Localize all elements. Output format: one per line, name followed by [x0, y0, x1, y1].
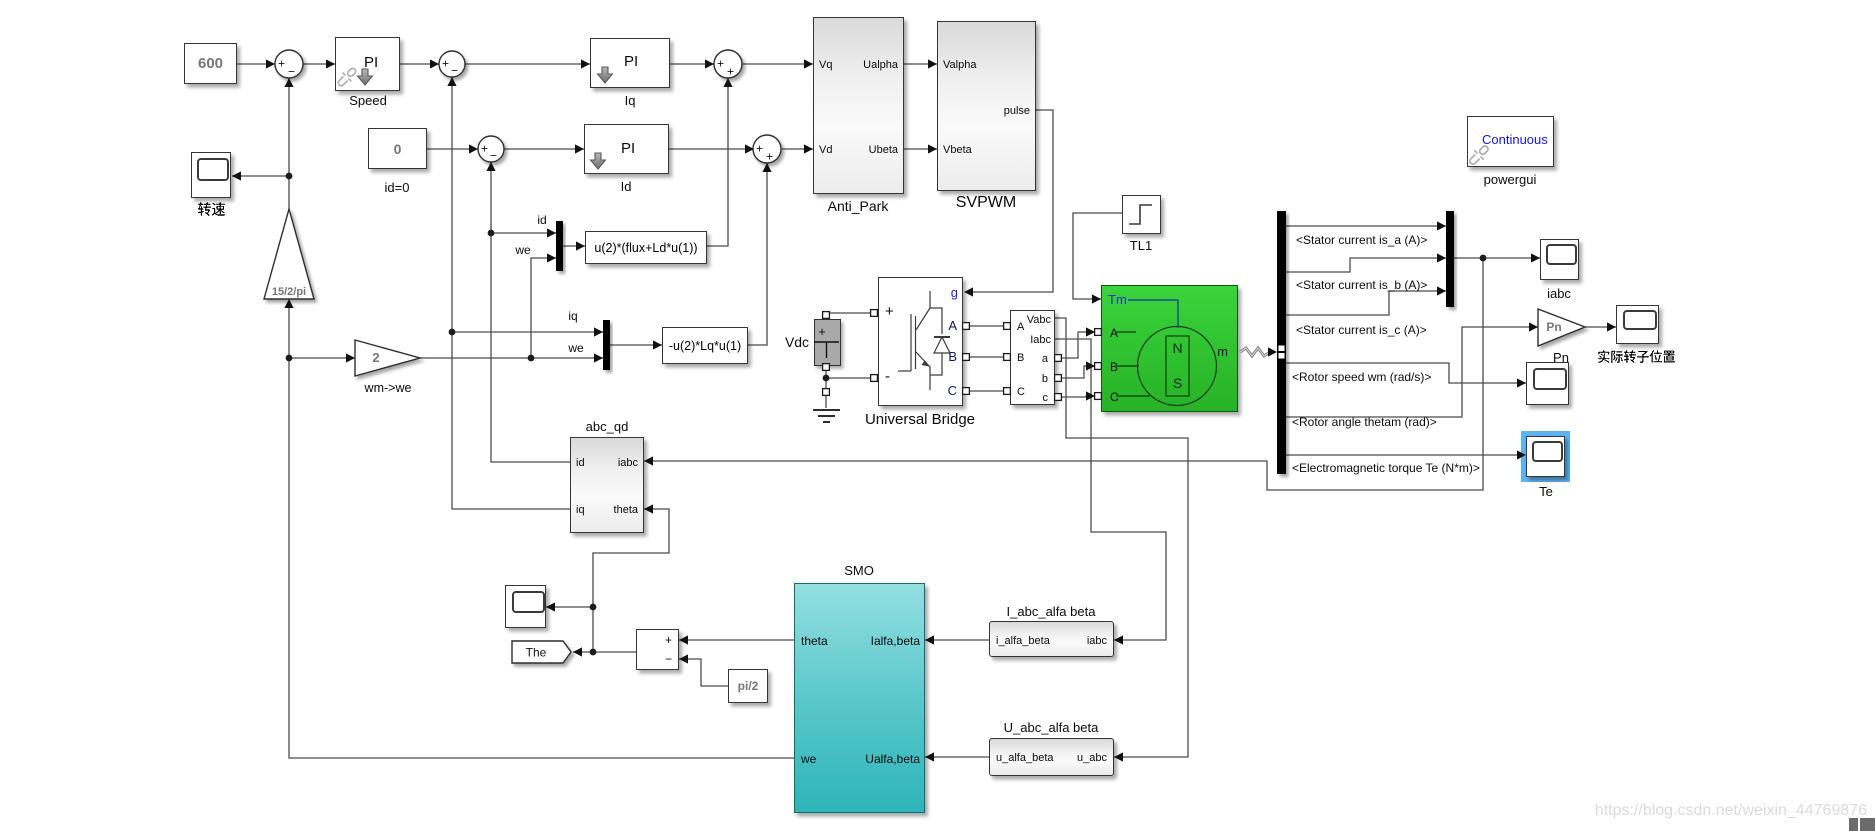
svg-text:+: +	[756, 142, 763, 156]
svg-text:+: +	[481, 142, 488, 156]
svg-text:+: +	[727, 65, 734, 79]
svg-text:−: −	[490, 149, 497, 163]
svg-text:2: 2	[372, 350, 379, 365]
svg-text:+: +	[278, 57, 285, 71]
svg-text:S: S	[1173, 375, 1182, 391]
svg-text:N: N	[1172, 340, 1182, 356]
svg-text:+: +	[766, 150, 773, 164]
svg-text:iq: iq	[568, 309, 577, 323]
svg-text:we: we	[567, 341, 584, 355]
svg-text:The: The	[526, 646, 547, 660]
svg-text:15/2/pi: 15/2/pi	[272, 286, 306, 298]
svg-text:+: +	[717, 57, 724, 71]
svg-text:−: −	[451, 64, 458, 78]
svg-text:+: +	[818, 324, 826, 339]
svg-text:−: −	[288, 65, 295, 79]
svg-text:+: +	[442, 57, 449, 71]
svg-text:id: id	[537, 213, 546, 227]
svg-text:we: we	[514, 243, 531, 257]
svg-text:Pn: Pn	[1546, 320, 1561, 334]
